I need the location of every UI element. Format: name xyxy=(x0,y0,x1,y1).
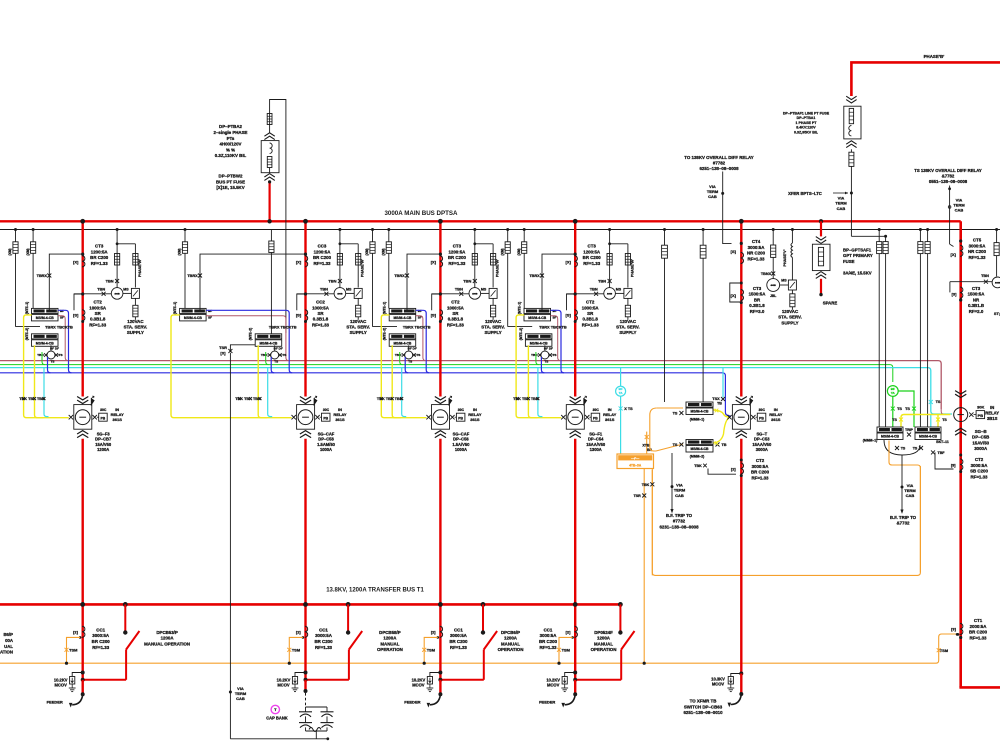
bay 3 label MTE-1 xyxy=(383,302,387,314)
label TS 138KV overall diff relay xyxy=(914,168,982,184)
bay 3 red vertical to transfer bus xyxy=(438,439,443,680)
bay 4 breaker DP&#8211;C54 xyxy=(561,396,616,452)
SG-B CT3 xyxy=(952,287,963,302)
svg-text:BR C200: BR C200 xyxy=(969,630,988,635)
svg-text:(MMM–2): (MMM–2) xyxy=(690,455,705,459)
bay 3 surge arrester xyxy=(427,671,443,692)
SG-B terminal box left xyxy=(863,427,903,443)
svg-text:CT1: CT1 xyxy=(974,618,983,623)
bay 2 CT secondary wire to terminal xyxy=(187,254,305,310)
chevron gap above PT xyxy=(264,133,274,140)
svg-text:&7732: &7732 xyxy=(897,521,910,526)
svg-text:0.3B1.8: 0.3B1.8 xyxy=(313,317,329,322)
bay 2 aux fuse drop from station bus xyxy=(269,230,274,334)
bay 2 terminal box MS/M-4-CB xyxy=(180,308,207,321)
svg-text:[X]: [X] xyxy=(73,259,79,264)
bay 3 feeder hook xyxy=(427,695,441,708)
bay 4 TBN X left xyxy=(567,287,604,296)
bay 3 yellow wire 2 xyxy=(392,345,401,417)
svg-text:PB: PB xyxy=(458,417,463,421)
bay 4 TBN X upper xyxy=(598,278,612,283)
svg-text:3000:5A: 3000:5A xyxy=(315,633,333,638)
svg-text:DP–C58: DP–C58 xyxy=(318,437,334,442)
svg-text:MS/M-4-CB: MS/M-4-CB xyxy=(691,447,709,451)
orange TSM tap right feeder xyxy=(937,633,959,653)
bay 4 metering fuse 1 xyxy=(607,254,612,266)
svg-text:1000A: 1000A xyxy=(320,447,332,452)
svg-text:CT3: CT3 xyxy=(453,244,462,249)
svg-text:SUPPLY: SUPPLY xyxy=(485,330,502,335)
svg-text:BR C200: BR C200 xyxy=(92,639,111,644)
svg-text:1200:5A: 1200:5A xyxy=(448,249,466,254)
SG-B label CT1 xyxy=(969,618,988,640)
svg-text:[S]: [S] xyxy=(731,249,737,254)
SG-T terminal box lower xyxy=(673,440,727,469)
svg-text:BF DF: BF DF xyxy=(544,346,553,350)
bay 2 label switch xyxy=(377,630,403,652)
svg-text:RF=1.33: RF=1.33 xyxy=(448,261,466,266)
chevron gap below PT xyxy=(264,174,274,181)
label VIA TERM CAB diff relay xyxy=(707,184,719,199)
svg-text:BF DF: BF DF xyxy=(50,346,59,350)
SG-B maroon end xyxy=(941,409,946,414)
svg-text:TBN: TBN xyxy=(455,287,463,292)
SG-T terminal box upper xyxy=(673,402,723,422)
bay 1 lower terminal box xyxy=(32,334,59,347)
svg-text:BF DF: BF DF xyxy=(408,346,417,350)
feeder bay 4 red vertical xyxy=(573,219,578,397)
svg-text:MS/M-4-CB: MS/M-4-CB xyxy=(259,342,277,346)
bay 4 supply fuse xyxy=(625,298,630,319)
label BF trip SG-B xyxy=(890,515,917,526)
svg-text:[X]: [X] xyxy=(431,259,437,264)
bay 1 meter TBN xyxy=(111,288,123,300)
SG-T label CT2 xyxy=(751,458,770,480)
svg-text:PB: PB xyxy=(101,417,106,421)
bay 2 cyan wire to relay xyxy=(268,368,273,417)
bay 3 CT2 xyxy=(431,310,443,323)
svg-text:STA. SERV.: STA. SERV. xyxy=(616,325,640,330)
svg-text:TBN: TBN xyxy=(106,278,114,283)
svg-text:CC1: CC1 xyxy=(319,627,328,632)
svg-text:RF=1.33: RF=1.33 xyxy=(969,255,987,260)
svg-text:1000:5A: 1000:5A xyxy=(89,305,107,310)
bay 4 meter TBN xyxy=(604,288,616,300)
SG-B TS X below boxes xyxy=(895,446,923,450)
svg-text:RF=1.33: RF=1.33 xyxy=(582,322,600,327)
svg-text:[X]1E, 15.5KV: [X]1E, 15.5KV xyxy=(216,185,244,190)
svg-text:DP–C53: DP–C53 xyxy=(754,437,770,442)
svg-text:[X]: [X] xyxy=(296,259,302,264)
bay 2 label CT2 xyxy=(312,300,330,328)
svg-text:#7782: #7782 xyxy=(713,161,726,166)
svg-text:[2]: [2] xyxy=(73,629,78,634)
bus PT DP-PTBA2 secondary bracket xyxy=(270,100,286,334)
svg-text:1000:5A: 1000:5A xyxy=(312,305,330,310)
svg-text:1300A: 1300A xyxy=(590,447,602,452)
svg-text:MS/M-4-CB: MS/M-4-CB xyxy=(691,410,709,414)
bay 2 TSR isolation X xyxy=(219,345,255,356)
svg-text:TS: TS xyxy=(942,418,947,422)
bay 2 label 120VAC supply xyxy=(346,319,370,335)
svg-text:10.2KV: 10.2KV xyxy=(54,677,68,682)
svg-text:PHASE’W’: PHASE’W’ xyxy=(361,259,365,277)
SG-B meter TBN xyxy=(981,274,1000,288)
svg-text:RATION: RATION xyxy=(0,650,13,655)
svg-text:RF=1.33: RF=1.33 xyxy=(450,645,468,650)
svg-text:1200:5A: 1200:5A xyxy=(91,249,109,254)
svg-text:MANUAL: MANUAL xyxy=(380,641,399,646)
svg-text:CC3: CC3 xyxy=(318,244,327,249)
svg-text:TS: TS xyxy=(544,360,548,364)
svg-text:MANUAL: MANUAL xyxy=(501,641,520,646)
svg-text:TBNX: TBNX xyxy=(761,272,772,276)
svg-text:MS/M-4-CB: MS/M-4-CB xyxy=(881,435,899,439)
svg-text:3000:5A: 3000:5A xyxy=(748,245,766,250)
chevron gap above spare fuse xyxy=(816,237,826,244)
SG-T metering drop 2 xyxy=(700,228,706,402)
svg-text:MS: MS xyxy=(481,288,487,292)
svg-text:GPT PRIMARY: GPT PRIMARY xyxy=(843,253,873,258)
bay 1 breaker DP&#8211;CB7 xyxy=(69,396,124,452)
svg-text:PB: PB xyxy=(323,417,328,421)
bay 4 CT2 hook xyxy=(567,292,577,310)
bay 3 CT CT3 xyxy=(431,253,443,267)
svg-text:(MTE–1): (MTE–1) xyxy=(173,302,177,314)
svg-text:TS: TS xyxy=(913,446,918,450)
cap bank tag xyxy=(271,705,279,713)
bay 2 meter TBN xyxy=(334,288,346,300)
svg-text:BR C200: BR C200 xyxy=(90,255,109,260)
bay 1 orange TSM tap xyxy=(65,637,81,664)
bay 4 metering drop xyxy=(608,228,628,288)
bay 1 feeder hook xyxy=(69,695,83,708)
bay 1 label BF SF xyxy=(60,309,64,320)
svg-text:TSM: TSM xyxy=(940,648,948,653)
bay 2 feeder to cap bank xyxy=(304,678,308,693)
svg-text:X TS: X TS xyxy=(624,407,633,411)
svg-text:CAB: CAB xyxy=(708,194,717,199)
bay 2 aux meter xyxy=(261,345,286,363)
svg-text:TS: TS xyxy=(905,407,910,411)
bay 1 label TBK TBK TBK xyxy=(19,397,45,401)
svg-text:BR C200: BR C200 xyxy=(313,255,332,260)
cyan metering wire xyxy=(0,368,952,414)
svg-text:SG–CAF: SG–CAF xyxy=(318,431,335,436)
chevron gap below spare fuse xyxy=(816,272,826,279)
svg-text:OPERATION: OPERATION xyxy=(591,647,617,652)
bay 2 label TBRX TBCKTB xyxy=(269,324,297,329)
svg-text:% %: % % xyxy=(226,147,235,152)
svg-text:TBN: TBN xyxy=(97,287,105,292)
svg-text:TSM: TSM xyxy=(562,647,570,652)
spare fuse red stub from main bus xyxy=(819,219,823,236)
svg-text:(XM): (XM) xyxy=(365,249,369,256)
bay 3 supply fuse xyxy=(491,298,496,319)
svg-text:TS 138KV OVERALL DIFF RELA: TS 138KV OVERALL DIFF RELAY xyxy=(914,168,982,173)
svg-text:RF=1.33: RF=1.33 xyxy=(92,645,110,650)
bay 2 label MTE-2 xyxy=(249,328,253,340)
bay 2 label TBK TBK TBK xyxy=(235,397,261,401)
svg-text:TS: TS xyxy=(274,360,278,364)
spare fuse DP-GPTSAF1 box xyxy=(812,244,830,270)
SG-B transfer CT1 xyxy=(951,623,963,639)
svg-text:RF=2.0: RF=2.0 xyxy=(969,309,984,314)
SG-B label CT5 xyxy=(968,238,987,260)
svg-text:CT2: CT2 xyxy=(586,300,595,305)
svg-text:3000A: 3000A xyxy=(756,447,768,452)
svg-text:TBN: TBN xyxy=(463,278,471,283)
svg-text:TBN: TBN xyxy=(598,278,606,283)
bay 2 blue tap lower xyxy=(271,357,274,373)
bay 1 blue tap xyxy=(58,310,72,373)
bay 1 surge arrester xyxy=(69,671,85,692)
svg-text:[X]: [X] xyxy=(731,293,737,298)
svg-text:120VAC: 120VAC xyxy=(485,319,502,324)
svg-text:CTS: CTS xyxy=(414,353,420,357)
svg-text:XTB: XTB xyxy=(642,443,650,447)
svg-text:4-CB: 4-CB xyxy=(337,293,343,296)
svg-text:DP–PTBAF1 LINE PT FUSE: DP–PTBAF1 LINE PT FUSE xyxy=(783,112,830,116)
svg-text:CT2: CT2 xyxy=(975,457,984,462)
svg-text:30C: 30C xyxy=(759,408,766,412)
bay 1 label MTE-1 xyxy=(25,302,29,314)
svg-text:MS: MS xyxy=(616,288,622,292)
svg-text:(MMM–1): (MMM–1) xyxy=(690,418,705,422)
feeder bay 3 red vertical xyxy=(438,219,443,397)
svg-text:SB C200: SB C200 xyxy=(970,469,988,474)
SG-T cyan tap TSX xyxy=(712,368,725,401)
svg-text:CT2: CT2 xyxy=(94,300,103,305)
label CAP BANK xyxy=(266,716,288,721)
bay 1 label 120VAC supply xyxy=(124,319,148,335)
SG-T metering drop 1 xyxy=(662,228,668,402)
svg-text:15AA/V50: 15AA/V50 xyxy=(752,442,772,447)
bay 2 label PHASE W xyxy=(361,259,365,277)
phase B line PT feed xyxy=(851,62,1000,96)
bay 3 transfer switch blade xyxy=(484,631,497,650)
SG-B BF trip lead xyxy=(900,455,903,514)
svg-text:CT4: CT4 xyxy=(752,239,761,244)
bay 1 transfer switch blade xyxy=(126,631,139,650)
bay 3 label FEEDER xyxy=(404,699,420,704)
svg-text:BF: BF xyxy=(208,309,212,313)
svg-text:0.3B1.8: 0.3B1.8 xyxy=(583,317,599,322)
svg-text:3000A: 3000A xyxy=(974,446,988,451)
SG-B terminal box right xyxy=(915,427,949,444)
svg-text:TBRX TBCKTB: TBRX TBCKTB xyxy=(539,324,567,329)
svg-text:0.3Z,95KV BIL: 0.3Z,95KV BIL xyxy=(794,130,819,134)
svg-text:(MTE–1): (MTE–1) xyxy=(518,302,522,314)
bay 3 CT2 hook xyxy=(432,292,442,310)
bay 2 red vertical to transfer bus xyxy=(303,439,308,680)
bay 3 label MCOV xyxy=(412,677,426,687)
bay 1 transfer switch wire xyxy=(83,650,126,680)
bay 2 orange TSM tap xyxy=(287,637,303,664)
svg-text:15AA/V50: 15AA/V50 xyxy=(586,442,606,447)
svg-text:3000:5A: 3000:5A xyxy=(971,463,989,468)
svg-text:STA. SERV.: STA. SERV. xyxy=(481,325,505,330)
bay 4 orange TSM tap xyxy=(557,637,573,664)
bay 1 TBN X upper xyxy=(106,278,120,283)
bay 4 CT secondary wire to terminal xyxy=(529,254,575,310)
svg-text:TS: TS xyxy=(936,400,941,404)
svg-text:10.3KV: 10.3KV xyxy=(711,676,725,681)
svg-text:SR: SR xyxy=(587,311,594,316)
bay 4 red vertical to transfer bus xyxy=(573,439,578,680)
capacitor bank xyxy=(230,707,333,740)
label VIA TERM CAB SG-B xyxy=(904,483,916,498)
bay 4 label BF SF xyxy=(553,309,557,320)
svg-text:BR C200: BR C200 xyxy=(751,470,770,475)
bay 1 label MCOV xyxy=(54,677,68,687)
svg-text:TBRX TBCKTB: TBRX TBCKTB xyxy=(403,324,431,329)
bay 4 feeder hook xyxy=(561,695,575,708)
bay 2 transfer switch wire xyxy=(306,650,349,680)
bay 3 maroon tap xyxy=(416,316,426,361)
svg-text:DP0524F: DP0524F xyxy=(594,630,613,635)
SG-B TBN meter drop xyxy=(994,228,999,276)
svg-text:TB: TB xyxy=(721,443,726,447)
SG-T alarm box orange up lead xyxy=(642,432,652,454)
svg-text:B.F. TRIP TO: B.F. TRIP TO xyxy=(890,515,917,520)
svg-text:30C: 30C xyxy=(458,408,465,412)
svg-text:SG–F3: SG–F3 xyxy=(97,431,111,436)
bay 1 label CT2 xyxy=(89,300,107,328)
svg-text:ST;: ST; xyxy=(994,311,1000,316)
svg-text:TBRX: TBRX xyxy=(529,274,540,278)
svg-text:TS: TS xyxy=(673,411,678,415)
SG-B green meter circle xyxy=(887,386,898,397)
bay 4 label MCOV xyxy=(546,677,560,687)
svg-text:TBO: TBO xyxy=(395,353,402,357)
svg-text:CT3: CT3 xyxy=(95,244,104,249)
svg-text:RF=1.33: RF=1.33 xyxy=(315,645,333,650)
svg-text:00A: 00A xyxy=(5,638,13,643)
svg-text:RF=1.33: RF=1.33 xyxy=(748,256,766,261)
bay 2 green tap xyxy=(266,352,269,365)
svg-text:0.3B1.8: 0.3B1.8 xyxy=(90,317,106,322)
SG-B green wires xyxy=(891,391,916,427)
svg-text:MS: MS xyxy=(346,288,352,292)
svg-text:(XM): (XM) xyxy=(382,249,386,256)
svg-text:SUPPLY: SUPPLY xyxy=(619,330,636,335)
svg-text:[2]: [2] xyxy=(431,629,436,634)
bay 3 lower terminal box xyxy=(389,334,416,347)
svg-text:CTS: CTS xyxy=(56,353,62,357)
svg-text:CT3: CT3 xyxy=(588,244,597,249)
SG-T breaker DP-CB3 xyxy=(727,396,782,452)
svg-text:(MTE–1): (MTE–1) xyxy=(383,302,387,314)
label VIA TERM CAB right PT xyxy=(835,196,847,211)
bay 4 label MTE-2 xyxy=(519,328,523,340)
SG-T bay red vertical xyxy=(739,219,744,397)
svg-text:4-CB: 4-CB xyxy=(115,293,121,296)
SG-T alarm orange down leads xyxy=(643,469,653,665)
SG-T label CT3 xyxy=(749,286,767,314)
bay 3 CT secondary wire to terminal xyxy=(394,254,440,310)
blue metering wire xyxy=(0,373,731,417)
feeder bay 2 red vertical xyxy=(303,219,308,397)
svg-text:[3]: [3] xyxy=(951,462,956,467)
svg-text:0.3B1.8: 0.3B1.8 xyxy=(749,303,765,308)
svg-text:TS: TS xyxy=(892,418,897,422)
svg-text:0.3B1.8: 0.3B1.8 xyxy=(448,317,464,322)
svg-text:TBN: TBN xyxy=(320,287,328,292)
bay 3 label CC1 xyxy=(449,627,468,649)
svg-text:(XM): (XM) xyxy=(517,249,521,256)
SG-T CT3 hook xyxy=(730,282,743,305)
bay 3 label MTE-2 xyxy=(383,328,387,340)
svg-text:[X]: [X] xyxy=(951,252,957,257)
svg-text:(MTE–2): (MTE–2) xyxy=(383,328,387,340)
bay 4 transfer CT CC1 xyxy=(566,626,578,639)
SG-T orange loop to terminal xyxy=(650,408,683,451)
bay 1 blue tap lower xyxy=(48,357,51,373)
svg-text:1200A: 1200A xyxy=(161,636,175,641)
bay 2 CT CC3 xyxy=(296,253,308,267)
spare fuse bottom stub xyxy=(819,279,822,297)
bay 3 label TBK TBK TBK xyxy=(377,397,403,401)
svg-text:PB: PB xyxy=(759,417,764,421)
bay 2 transfer switch stub xyxy=(346,602,351,635)
svg-text:CC1: CC1 xyxy=(454,627,463,632)
bay 2 label CC3 xyxy=(313,244,332,266)
bay 4 label PHASE W xyxy=(630,259,634,277)
svg-text:NR C200: NR C200 xyxy=(747,251,766,256)
svg-text:TBRX: TBRX xyxy=(37,274,48,278)
SG-T label 120VAC supply xyxy=(778,309,802,325)
svg-text:RF=1.33: RF=1.33 xyxy=(91,261,109,266)
svg-text:SG–B: SG–B xyxy=(975,429,987,434)
SG-T orange lead X marks xyxy=(634,482,655,498)
svg-text:4H00/120V: 4H00/120V xyxy=(220,142,242,147)
svg-text:(MTE–1): (MTE–1) xyxy=(25,302,29,314)
svg-text:BF: BF xyxy=(553,309,557,313)
SG-T metering drop 3 xyxy=(771,228,776,279)
svg-text:DPCB58/P: DPCB58/P xyxy=(379,630,401,635)
svg-text:TBK: TBK xyxy=(642,483,650,487)
label transfer bus xyxy=(326,588,424,594)
bay 2 transfer CT CC1 xyxy=(296,626,308,639)
svg-text:1.5A/V50: 1.5A/V50 xyxy=(452,442,470,447)
svg-text:CAB: CAB xyxy=(837,206,846,211)
bay 1 label CT3 xyxy=(90,244,109,266)
svg-text:MANUAL OPERATION: MANUAL OPERATION xyxy=(144,641,190,646)
bay 2 surge arrester xyxy=(292,671,308,692)
svg-text:RELAY: RELAY xyxy=(985,410,999,415)
bay 1 fuse drop 1 xyxy=(8,228,40,327)
svg-text:3000:5A: 3000:5A xyxy=(969,243,987,248)
svg-text:PTs: PTs xyxy=(227,136,235,141)
svg-text:361S: 361S xyxy=(335,417,345,422)
svg-text:4TB–3A: 4TB–3A xyxy=(629,464,642,468)
bay 3 TBN X left xyxy=(432,287,469,296)
svg-text:3A/4E, 15.5KV: 3A/4E, 15.5KV xyxy=(843,270,872,275)
svg-text:OPERATION: OPERATION xyxy=(498,647,524,652)
svg-text:[3]: [3] xyxy=(952,291,957,296)
SG-B label CT2 xyxy=(970,457,988,479)
svg-text:STA. SERV.: STA. SERV. xyxy=(778,315,802,320)
svg-text:TS: TS xyxy=(901,446,906,450)
svg-text:361S: 361S xyxy=(470,417,480,422)
bay 2 lower terminal box xyxy=(255,334,282,347)
svg-text:SUPPLY: SUPPLY xyxy=(127,330,144,335)
svg-text:CT2: CT2 xyxy=(756,458,765,463)
svg-text:1500:5A: 1500:5A xyxy=(968,292,986,297)
bay 3 metering fuse 1 xyxy=(472,254,477,266)
svg-text:FEEDER: FEEDER xyxy=(539,699,555,704)
